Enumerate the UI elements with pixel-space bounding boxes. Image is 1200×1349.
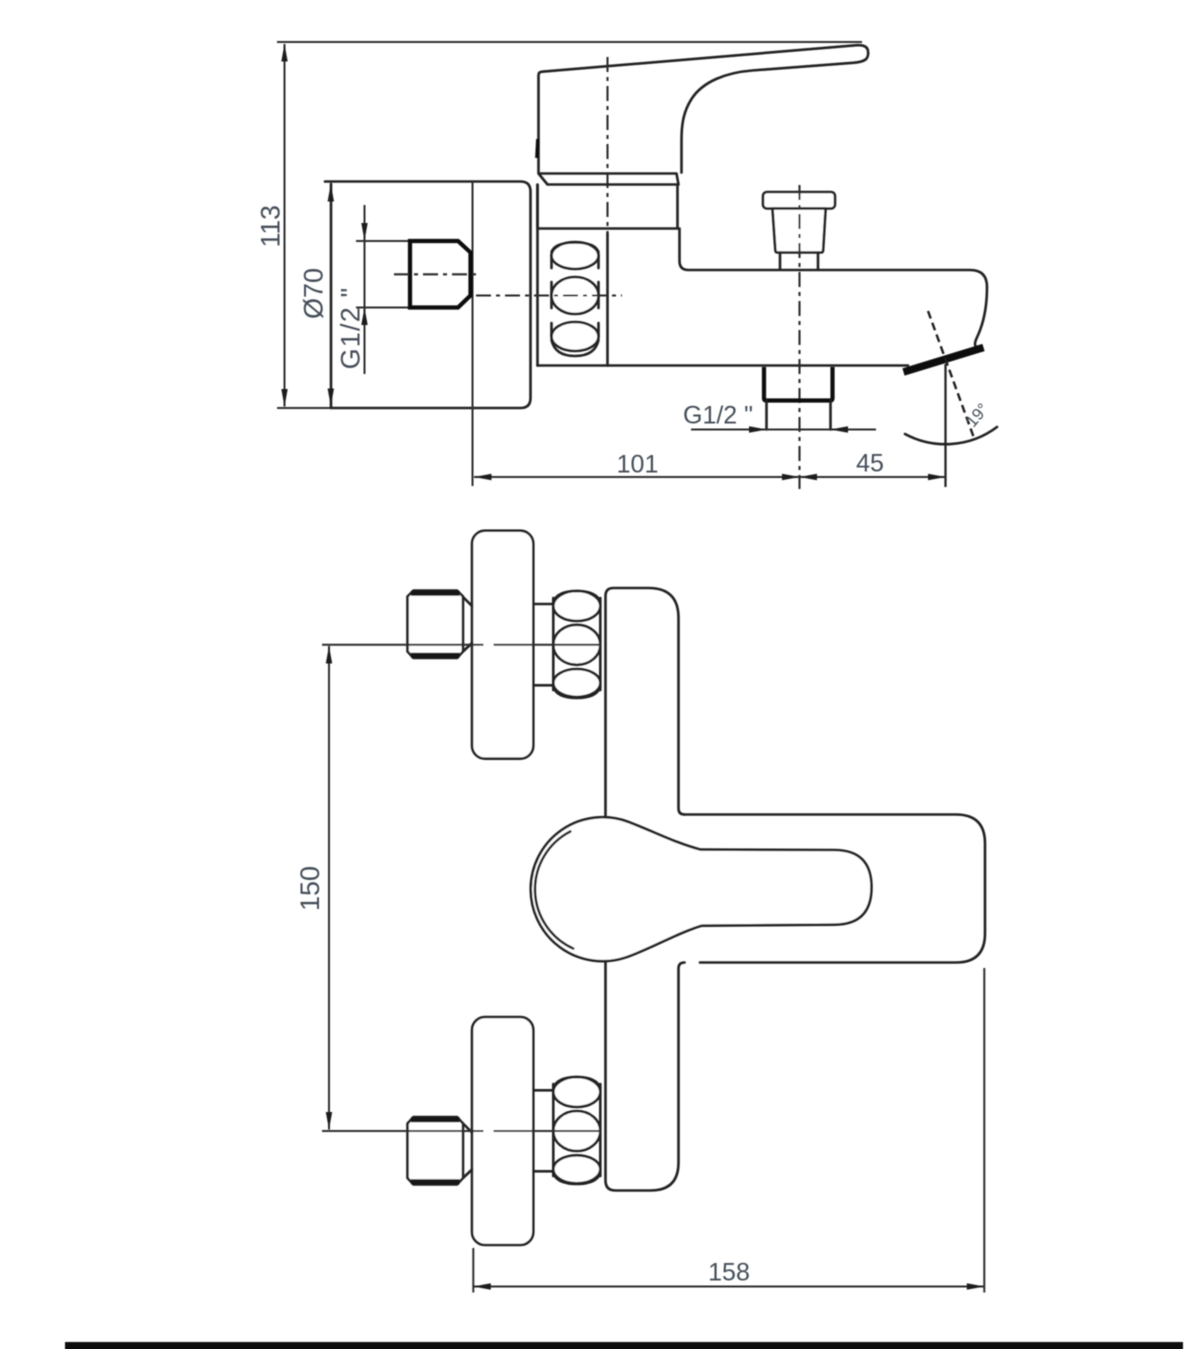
union rings (side view): [552, 242, 599, 356]
diverter / outlet axis center line: [798, 185, 800, 489]
union rings front bottom: [553, 1077, 600, 1184]
inlet axis top / extension for 150: [322, 644, 602, 646]
extension line top of 113: [277, 41, 862, 43]
hex nut bottom: [408, 1117, 473, 1185]
escutcheon bottom (front view): [472, 1017, 533, 1245]
svg-text:158: 158: [708, 1259, 750, 1287]
svg-text:Ø70: Ø70: [299, 268, 329, 319]
body outline (side view): [680, 229, 988, 347]
inlet axis bottom / extension for 150: [322, 1130, 602, 1132]
dimension Ø70 (on plate left edge): [328, 184, 334, 406]
angle arc: [905, 427, 997, 444]
lever axis center line: [606, 57, 608, 233]
extension line 158 left: [472, 1248, 474, 1293]
cartridge band: [538, 185, 678, 229]
cartridge collar (trapezoid): [539, 174, 679, 185]
diverter knob: [763, 192, 835, 270]
connector lines top inlet: [533, 604, 553, 685]
fitting center line: [394, 273, 478, 275]
svg-text:G1/2 ": G1/2 ": [336, 287, 366, 370]
S-union column (side view): [538, 185, 608, 366]
wall plate (escutcheon, side view): [325, 182, 531, 409]
connector lines bottom inlet: [533, 1090, 553, 1171]
footer bar: [65, 1342, 1183, 1349]
outlet thread: [767, 401, 831, 430]
dimension line 158: [473, 1283, 984, 1289]
svg-text:150: 150: [295, 866, 325, 911]
union rings center line: [476, 294, 622, 296]
angle reference line 19 deg (dashed): [928, 311, 974, 438]
body bottom edge: [538, 364, 909, 367]
wall line / extension for 101: [472, 182, 474, 487]
dimension line 45: [800, 474, 946, 480]
dimension line 150: [326, 646, 332, 1130]
extension line 158 right: [983, 968, 985, 1293]
hex nut top: [408, 591, 473, 659]
union rings front top: [553, 591, 600, 698]
lever handle (side view): [539, 45, 869, 172]
outlet collar (thick): [764, 367, 833, 401]
svg-text:45: 45: [856, 450, 884, 478]
dimension line 101: [474, 474, 800, 480]
svg-text:G1/2 ": G1/2 ": [683, 402, 753, 430]
lever edge tick: [537, 139, 538, 158]
vertical reference line / extension for 45: [944, 364, 946, 487]
svg-text:19°: 19°: [963, 400, 993, 431]
body arm (front view): [685, 815, 986, 963]
handle front view (knob + lever): [531, 817, 872, 961]
body bar (front view): [606, 588, 685, 817]
svg-text:113: 113: [256, 205, 286, 247]
inlet fitting G1/2 (male thread, side view): [410, 241, 471, 308]
knob highlight arc: [535, 832, 573, 949]
thread dimension G1/2 bottom: [691, 426, 876, 432]
dimension line 113: [281, 44, 287, 407]
extension line bottom of 113 / plate bottom: [277, 407, 335, 409]
dimension G1/2 top: [356, 205, 410, 374]
escutcheon top (front view): [472, 531, 533, 759]
spout aerator face (thick): [904, 348, 984, 373]
svg-text:101: 101: [617, 451, 659, 479]
